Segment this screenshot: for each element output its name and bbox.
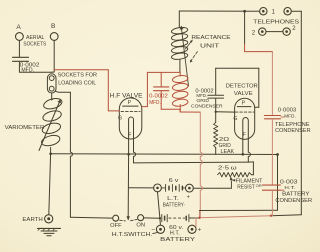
node grid junction: [215, 111, 217, 113]
red wire condenser chain upper: [271, 52, 273, 116]
node phones tap: [243, 10, 246, 13]
svg-text:0-0002: 0-0002: [149, 94, 168, 100]
svg-text:H.T.SWITCH.: H.T.SWITCH.: [112, 232, 152, 238]
node rail right end: [276, 153, 279, 156]
ground symbol: [38, 227, 61, 229]
wire filament feed: [134, 161, 249, 164]
L.T. battery + terminal: [186, 184, 194, 192]
H.F valve filament: [129, 117, 134, 154]
telephone condenser C 0.0003: [264, 115, 280, 117]
wire A down: [18, 40, 20, 57]
node det filament-rail: [242, 153, 245, 156]
sockets for loading coil: [47, 74, 56, 93]
wire LT feed: [128, 187, 153, 189]
L.T. battery - terminal: [154, 184, 162, 192]
svg-text:BATTERY: BATTERY: [160, 237, 195, 243]
svg-text:BATTERY: BATTERY: [282, 192, 310, 198]
reactance unit primary coil: [171, 26, 188, 34]
svg-text:+: +: [187, 194, 190, 200]
red wire secondary to HT+: [161, 108, 180, 110]
node HF filament-rail: [127, 153, 130, 156]
variometer coil: [43, 97, 64, 111]
svg-text:OFF: OFF: [110, 223, 121, 229]
anode condenser C 0.0002 red: [160, 72, 162, 86]
svg-text:VARIOMETER: VARIOMETER: [5, 125, 45, 131]
red wire aerial to HF grid: [54, 69, 108, 71]
detector grid dashes: [235, 111, 253, 113]
wire filament rail: [51, 153, 278, 156]
wire grid condenser top: [215, 68, 217, 95]
telephones terminal 2 left: [259, 28, 266, 35]
wire socket tap down: [55, 91, 70, 92]
svg-text:2Ω: 2Ω: [219, 137, 229, 143]
label FILAMENT RESISTOR: [232, 179, 235, 182]
wire phones 1 right: [291, 10, 301, 12]
svg-text:G: G: [118, 116, 122, 122]
svg-text:H.T.: H.T.: [284, 185, 295, 191]
red wire HT+ junction: [199, 216, 271, 218]
wire plate top lead: [178, 11, 180, 28]
svg-text:6 v: 6 v: [169, 178, 179, 184]
red wire phones tap: [244, 11, 246, 44]
capacitor 0.0002 aerial series: [13, 56, 29, 58]
wire link terminals 2: [266, 31, 283, 33]
label arrow lower: [191, 52, 198, 61]
svg-text:GRID: GRID: [196, 98, 209, 104]
H.F valve plate bar: [123, 105, 139, 107]
svg-text:H.T.: H.T.: [170, 231, 180, 237]
svg-text:P: P: [128, 100, 132, 106]
svg-text:P: P: [242, 100, 246, 106]
svg-text:DETECTOR: DETECTOR: [226, 83, 258, 89]
telephones terminal 1 right: [284, 8, 291, 15]
svg-text:H.F VALVE: H.F VALVE: [110, 93, 143, 100]
svg-text:VALVE: VALVE: [234, 91, 253, 97]
resistor wiper arm: [230, 181, 232, 188]
wire B down: [53, 40, 55, 72]
svg-text:CONDENSER: CONDENSER: [275, 128, 311, 134]
svg-text:BATTERY·: BATTERY·: [163, 203, 186, 209]
aerial socket B terminal: [50, 33, 58, 41]
red wire condenser chain middle: [271, 119, 273, 185]
svg-text:MFD.: MFD.: [149, 100, 161, 106]
detector filament: [243, 118, 249, 155]
svg-text:EARTH: EARTH: [22, 217, 42, 223]
svg-text:MFD.: MFD.: [196, 93, 207, 99]
svg-text:SOCKETS FOR: SOCKETS FOR: [58, 73, 98, 79]
grid condenser C 0.0002: [208, 94, 224, 96]
aerial socket A terminal: [16, 33, 24, 41]
svg-text:CONDENSER: CONDENSER: [191, 103, 223, 109]
svg-text:A: A: [16, 24, 21, 31]
svg-text:B: B: [51, 23, 56, 30]
H.T. battery - terminal: [156, 225, 164, 233]
node LT- HT junction: [159, 217, 161, 219]
wire LT+ to wiper: [193, 187, 231, 189]
svg-text:F: F: [243, 132, 246, 138]
red wire condenser chain lower: [271, 191, 273, 216]
wire grid condenser to detector grid: [215, 98, 217, 111]
reactance secondary coil red: [172, 75, 188, 84]
svg-text:L.T.: L.T.: [167, 196, 179, 202]
wire phones return: [271, 215, 301, 216]
H.T. battery + terminal: [188, 225, 196, 233]
svg-text:GRID: GRID: [219, 143, 232, 149]
svg-text:G: G: [233, 116, 237, 122]
detector valve U2 envelope: [235, 98, 255, 139]
svg-text:ON: ON: [136, 222, 145, 228]
H.F valve grid dashes: [121, 110, 140, 112]
svg-text:TELEPHONES: TELEPHONES: [253, 19, 300, 25]
wire box top plate link: [216, 67, 259, 69]
grid leak resistor 2 Mohm: [215, 112, 217, 123]
filament resistor R 2.5ohm: [218, 173, 252, 177]
wire HT+ rail upper: [200, 209, 278, 211]
svg-text:RESIST: RESIST: [237, 185, 255, 191]
svg-text:CONDENSER: CONDENSER: [275, 198, 312, 204]
svg-text:F: F: [128, 132, 131, 138]
detector plate bar: [237, 106, 251, 108]
svg-text:UNIT: UNIT: [200, 44, 220, 50]
telephones terminal 2 right: [283, 28, 290, 35]
svg-text:AERIAL: AERIAL: [26, 35, 45, 41]
L.T. battery cells: [161, 187, 165, 189]
svg-text:2·5 ω: 2·5 ω: [218, 165, 237, 171]
earth terminal: [45, 215, 53, 223]
wire reactance bottom: [179, 59, 181, 72]
wire LT- to HT-: [158, 192, 160, 218]
svg-text:LOADING COIL: LOADING COIL: [58, 81, 96, 87]
H.T. battery cells: [161, 214, 163, 221]
telephones terminal 1 left: [260, 8, 267, 15]
svg-text:REACTANCE: REACTANCE: [191, 35, 230, 41]
svg-text:OR: OR: [256, 184, 263, 188]
H.T. battery condenser C 0.003: [262, 184, 280, 186]
wire variometer to earth: [50, 148, 52, 154]
node condenser bottom: [270, 215, 272, 217]
node HT+ junction: [198, 217, 200, 219]
wire HF filament to switch arm: [127, 154, 129, 216]
red wire HF plate to reactance: [142, 106, 148, 108]
wire ON to LT junction: [144, 217, 160, 219]
wire capacitor to junction: [19, 62, 51, 73]
svg-text:+: +: [198, 228, 202, 234]
reactance coupling arrow: [181, 26, 188, 86]
red wire secondary leads: [179, 72, 181, 76]
H.T. switch arm dashes: [120, 219, 126, 222]
label arrow upper: [185, 40, 192, 49]
node variometer-bottom: [49, 153, 52, 156]
H.T. switch OFF contact: [113, 215, 119, 221]
wire sockets to variometer: [51, 93, 53, 100]
variometer arrow: [39, 100, 61, 151]
svg-text:MFD.: MFD.: [284, 114, 296, 120]
svg-text:SOCKETS: SOCKETS: [23, 41, 46, 47]
svg-text:0·003: 0·003: [280, 179, 298, 185]
H.T. switch ON contact: [138, 215, 144, 221]
svg-text:0·0003: 0·0003: [278, 108, 297, 114]
svg-text:LEAK: LEAK: [221, 149, 235, 155]
H.F valve U1 envelope: [119, 98, 142, 139]
